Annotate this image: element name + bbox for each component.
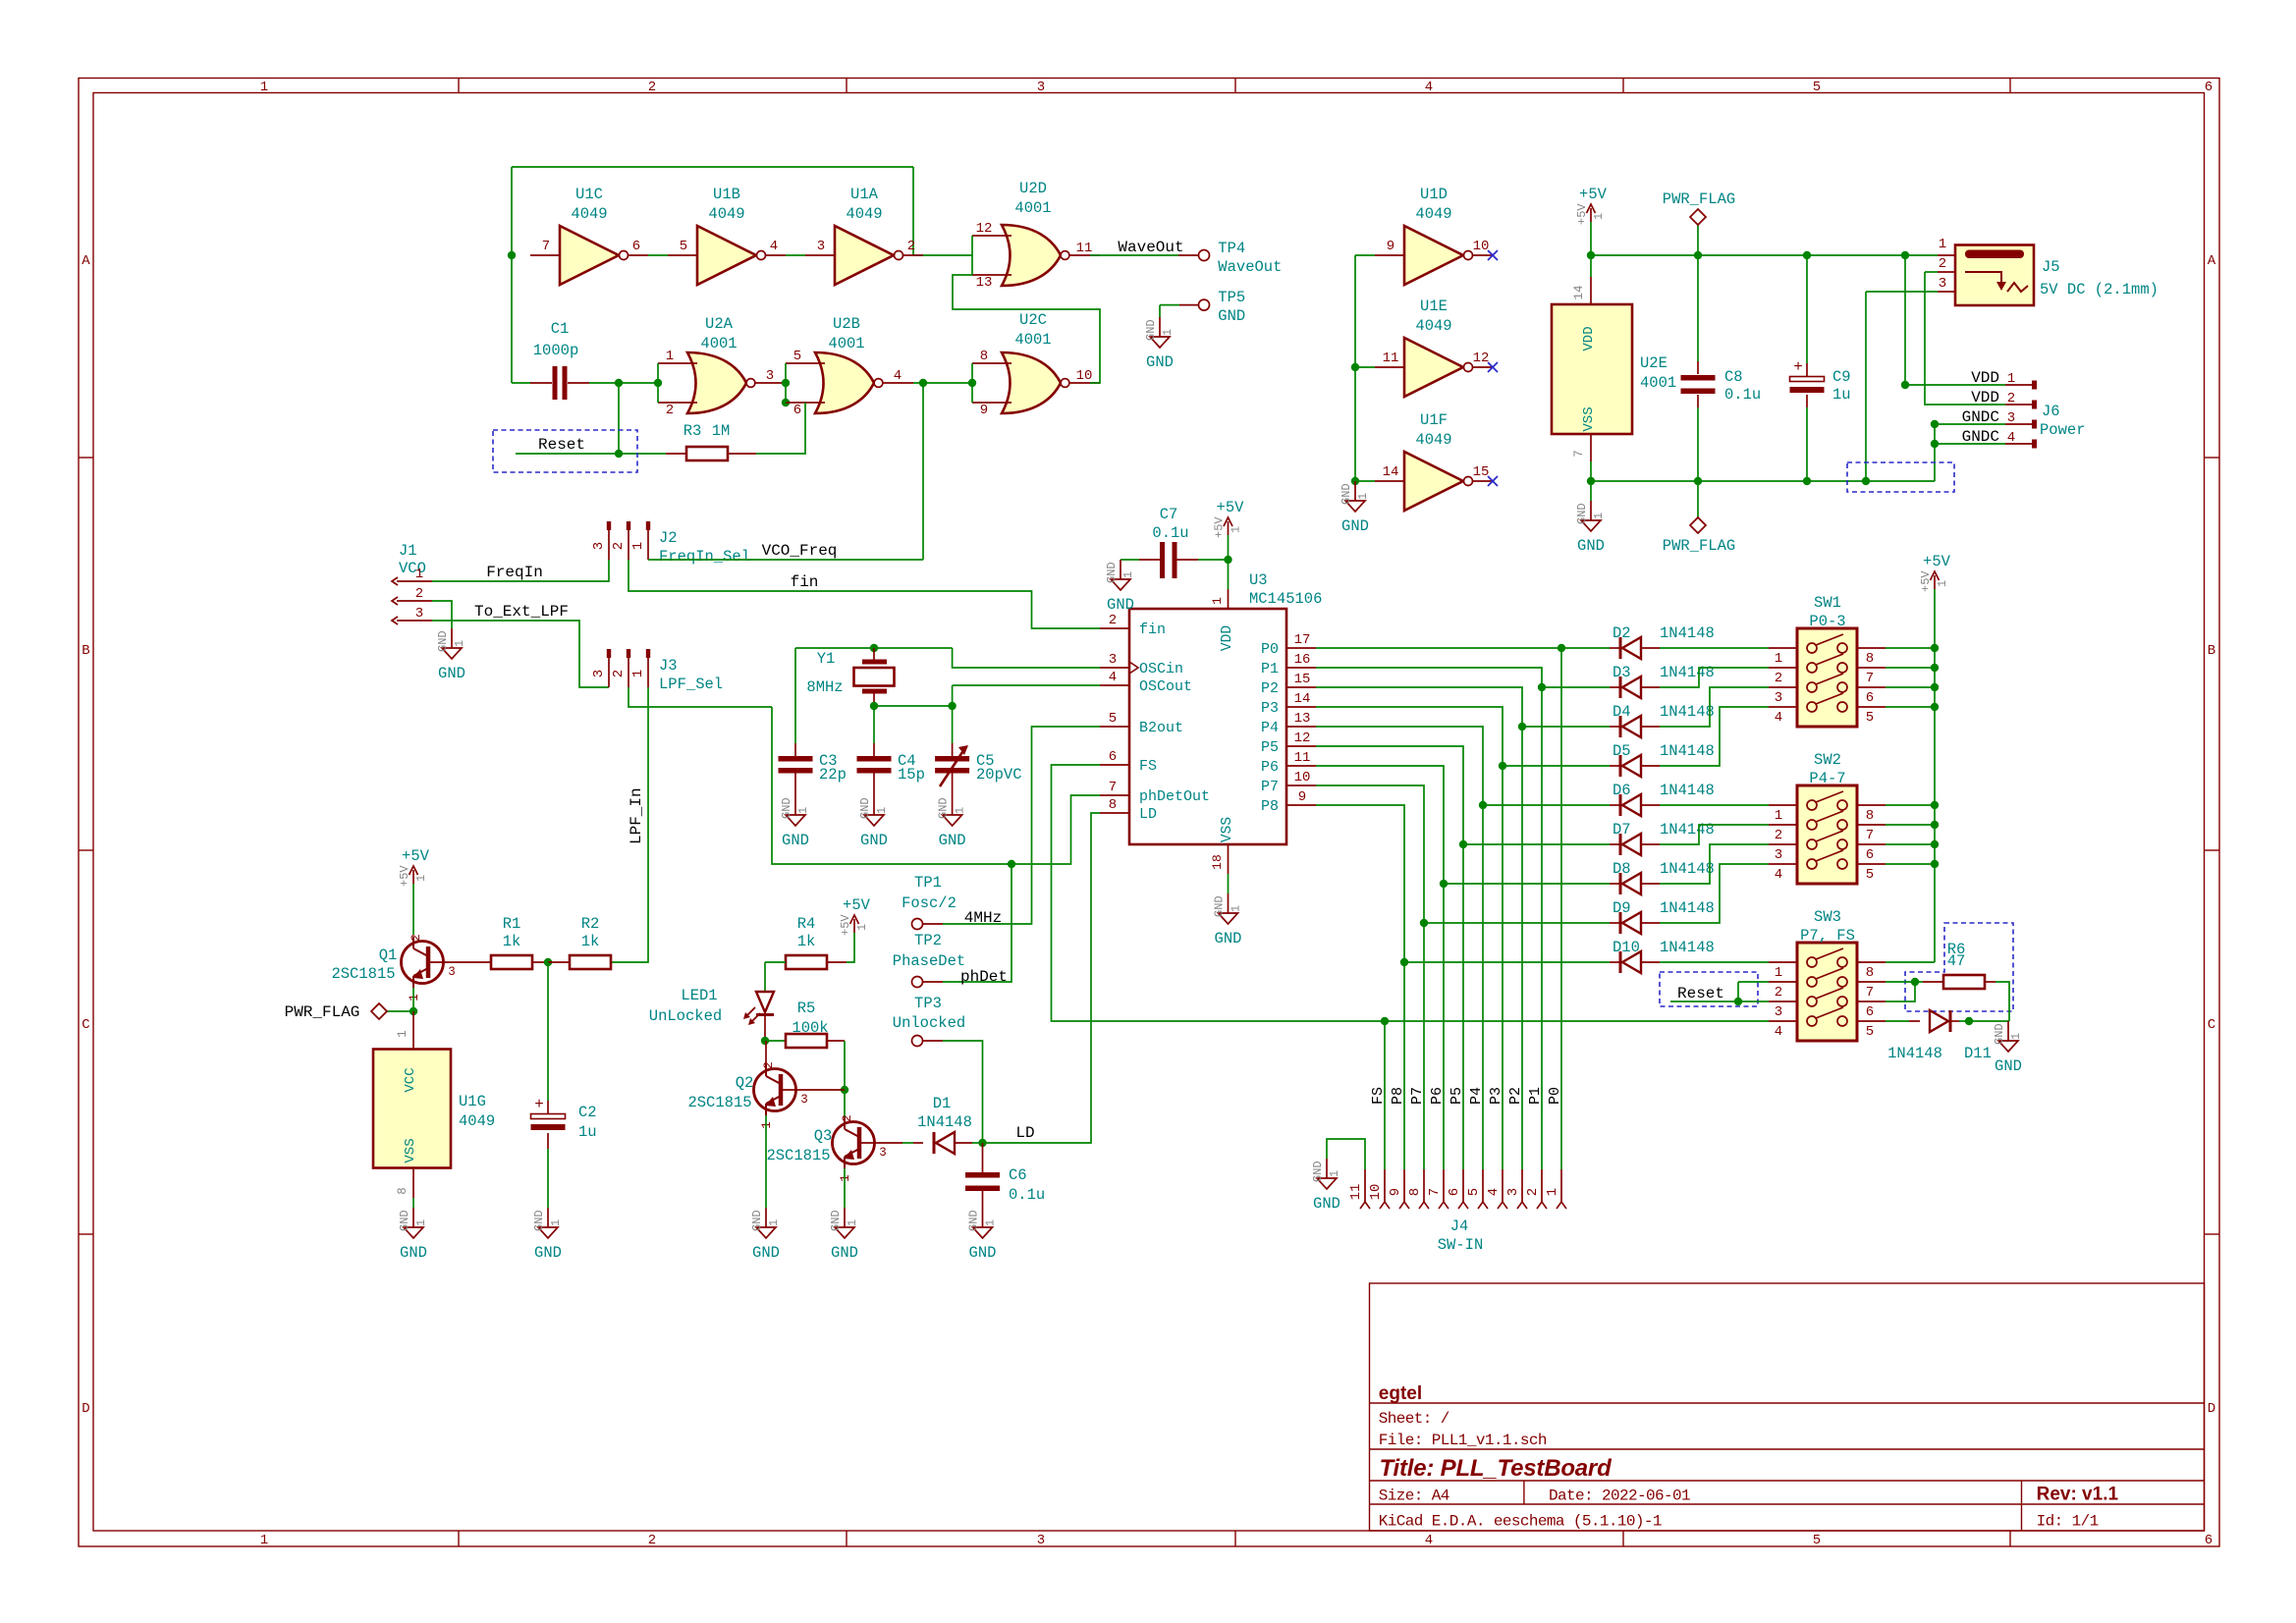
svg-text:D9: D9 (1613, 899, 1631, 917)
ground GND at C7 (1105, 560, 1135, 614)
svg-text:2SC1815: 2SC1815 (687, 1094, 751, 1111)
power unit U2E box (1552, 304, 1632, 434)
diode D3 body (1620, 676, 1641, 698)
svg-text:3: 3 (1505, 1188, 1521, 1196)
ground GND at C6 (967, 1208, 998, 1262)
node junction +5V rail (1931, 644, 1939, 652)
svg-text:GND: GND (937, 797, 951, 819)
resistor R3 (686, 447, 728, 460)
svg-text:1000p: 1000p (533, 342, 579, 359)
svg-text:SW2: SW2 (1814, 751, 1841, 769)
svg-text:1N4148: 1N4148 (1660, 664, 1715, 681)
svg-text:8: 8 (1109, 797, 1117, 813)
svg-text:U1D: U1D (1420, 186, 1448, 203)
svg-text:1N4148: 1N4148 (1660, 703, 1715, 721)
diode D10 body (1620, 951, 1641, 973)
svg-text:8: 8 (1866, 808, 1874, 824)
svg-text:1: 1 (2009, 1033, 2023, 1040)
svg-text:+5V: +5V (1919, 570, 1933, 592)
node junction U1E (1351, 363, 1359, 371)
node junction LD (978, 1139, 986, 1147)
Q2 emitter to GND (765, 1115, 767, 1208)
svg-text:1: 1 (760, 1121, 774, 1129)
wire phDetOut (772, 707, 1100, 864)
svg-text:GND: GND (1144, 319, 1158, 341)
svg-text:1: 1 (415, 567, 423, 582)
crystal Y1 8MHz (854, 648, 895, 706)
svg-text:1k: 1k (503, 933, 521, 950)
svg-text:C: C (82, 1017, 89, 1033)
svg-text:4: 4 (1775, 710, 1782, 726)
diode D5 body (1620, 755, 1641, 777)
node junction P4/diode (1479, 801, 1487, 809)
diode D6 body (1620, 794, 1641, 816)
svg-text:fin: fin (791, 573, 819, 591)
svg-text:GNDC: GNDC (1962, 428, 1999, 446)
wire U1B-U1A (786, 254, 805, 256)
svg-text:GND: GND (400, 1244, 427, 1262)
svg-text:R3: R3 (683, 422, 702, 440)
J5 pin 1 (1938, 254, 1955, 256)
wire VCO_Freq drop (922, 383, 924, 560)
svg-text:Q3: Q3 (814, 1127, 833, 1145)
svg-text:U1G: U1G (459, 1093, 486, 1110)
svg-text:Sheet: /: Sheet: / (1379, 1410, 1449, 1428)
wire OSCout (953, 684, 1100, 686)
wire net P8 (1316, 805, 1404, 1169)
svg-text:3: 3 (766, 368, 774, 384)
svg-text:GND: GND (532, 1210, 546, 1231)
svg-text:C: C (2208, 1017, 2215, 1033)
svg-text:5: 5 (1813, 1533, 1821, 1548)
node junction +5V rail (1931, 801, 1939, 809)
resistor R4 1k (786, 955, 827, 969)
Q3 emitter to GND (844, 1168, 846, 1208)
node junction Y1 top (870, 644, 878, 652)
svg-text:PWR_FLAG: PWR_FLAG (1663, 537, 1735, 555)
svg-text:Reset: Reset (1677, 985, 1724, 1002)
svg-text:9: 9 (1388, 1188, 1403, 1196)
svg-text:9: 9 (1387, 239, 1394, 254)
svg-text:GND: GND (969, 1244, 997, 1262)
svg-text:Y1: Y1 (817, 650, 836, 668)
svg-text:U2D: U2D (1019, 180, 1047, 197)
node junction U2C input (968, 379, 976, 387)
svg-text:11: 11 (1383, 351, 1399, 366)
svg-text:GND: GND (436, 630, 450, 652)
svg-text:TP2: TP2 (914, 932, 942, 949)
svg-text:1: 1 (796, 807, 810, 814)
svg-text:1N4148: 1N4148 (1660, 624, 1715, 642)
svg-text:2: 2 (611, 670, 627, 677)
U3 pin 1 VDD top (1228, 589, 1230, 609)
wire J1 pin2 to GND (432, 601, 452, 628)
wire to U1D input (1355, 254, 1375, 256)
resistor R3 1M with wires (618, 383, 620, 454)
svg-text:3: 3 (1775, 690, 1782, 706)
node junction PWR_FLAG (1694, 251, 1702, 259)
svg-text:SW1: SW1 (1814, 594, 1841, 612)
wire crystal bottom rail (874, 705, 953, 707)
capacitor C3 22p (779, 756, 813, 774)
wire left vertical (511, 167, 513, 383)
svg-text:4: 4 (1425, 80, 1433, 95)
ground GND at Q3 (829, 1208, 859, 1262)
node junction P6/diode (1440, 880, 1448, 888)
wire To_Ext_LPF (432, 621, 609, 687)
DIP switch SW2 P4-7 (1769, 751, 1886, 884)
diode D9 body (1620, 912, 1641, 934)
wire Reset net (516, 453, 619, 455)
svg-text:1: 1 (2007, 371, 2015, 387)
svg-text:phDet: phDet (960, 968, 1008, 986)
svg-text:LD: LD (1139, 806, 1157, 823)
J4 pin 9 (1403, 1169, 1405, 1202)
power flag PWR_FLAG at Q1 (371, 1003, 413, 1019)
svg-text:P7: P7 (1409, 1087, 1426, 1105)
svg-text:VCO_Freq: VCO_Freq (762, 542, 838, 560)
svg-text:GND: GND (1339, 483, 1353, 505)
diode D11 1N4148 (1930, 1010, 1950, 1032)
node junction P7/diode (1420, 919, 1428, 927)
svg-text:6: 6 (793, 403, 801, 418)
svg-text:D2: D2 (1613, 624, 1631, 642)
svg-text:D5: D5 (1613, 742, 1631, 760)
node junction Y1 bottom (870, 702, 878, 710)
resistor R6 47 (1943, 975, 1985, 989)
svg-text:VDD: VDD (1220, 625, 1235, 651)
svg-text:D: D (2208, 1401, 2215, 1417)
svg-text:2: 2 (1775, 671, 1782, 686)
svg-text:4001: 4001 (1014, 199, 1051, 217)
svg-text:3: 3 (2007, 410, 2015, 426)
svg-text:GND: GND (1107, 596, 1134, 614)
J5 pin 2 (1938, 271, 1955, 273)
svg-text:14: 14 (1294, 691, 1311, 707)
svg-text:SW3: SW3 (1814, 908, 1841, 926)
svg-text:14: 14 (1383, 464, 1399, 480)
svg-text:+5V: +5V (839, 914, 852, 936)
svg-text:FS: FS (1370, 1087, 1387, 1105)
svg-text:LPF_In: LPF_In (628, 787, 645, 844)
svg-text:4: 4 (770, 239, 778, 254)
ground GND at D11 (1993, 1021, 2023, 1075)
svg-text:47: 47 (1947, 952, 1966, 970)
svg-text:2: 2 (666, 403, 674, 418)
wire TP2 drop (943, 864, 1011, 982)
svg-text:P4: P4 (1468, 1087, 1485, 1105)
node junction at U1C input (508, 251, 516, 259)
wire net P1 (1316, 668, 1542, 1169)
dashed box around Reset at SW3 (1660, 972, 1758, 1006)
svg-text:GND: GND (1341, 517, 1369, 535)
svg-text:TP5: TP5 (1218, 289, 1245, 306)
ground GND at J1 (436, 628, 466, 682)
capacitor C8 (1681, 375, 1716, 394)
diode D1 1N4148 (913, 1142, 923, 1144)
svg-text:OSCout: OSCout (1139, 678, 1192, 695)
wire J5 pin3 to ground rail (1865, 292, 1867, 481)
svg-text:6: 6 (1866, 1004, 1874, 1020)
node junction P2/diode (1518, 723, 1526, 730)
svg-text:1: 1 (1775, 651, 1782, 667)
svg-text:P7, FS: P7, FS (1800, 927, 1855, 945)
capacitor C1 1000p (553, 366, 568, 400)
wire Reset to SW3 pin3 (1738, 982, 1769, 1001)
svg-text:9: 9 (1298, 789, 1306, 805)
diode D9 1N4148 (1424, 922, 1610, 924)
diode D4 body (1620, 716, 1641, 737)
node junction U2B pin6 / R3 (782, 399, 790, 406)
svg-text:GND: GND (1575, 503, 1589, 524)
node junction C5 (948, 702, 956, 710)
svg-text:1: 1 (1328, 1170, 1341, 1177)
svg-text:GND: GND (1213, 895, 1227, 917)
wire R4 to LED1 (765, 961, 786, 963)
svg-text:GNDC: GNDC (1962, 408, 1999, 426)
svg-text:1N4148: 1N4148 (1660, 860, 1715, 878)
svg-text:10: 10 (1294, 770, 1311, 785)
svg-text:1: 1 (630, 542, 646, 550)
svg-text:13: 13 (976, 275, 993, 291)
svg-text:1: 1 (1230, 905, 1243, 912)
node junction +5V rail (1931, 664, 1939, 672)
LED LED1 UnLocked (743, 992, 774, 1025)
wire U2B out to U2C (913, 382, 972, 384)
svg-text:1: 1 (1545, 1188, 1560, 1196)
svg-text:TP3: TP3 (914, 995, 942, 1012)
svg-text:3: 3 (1775, 1004, 1782, 1020)
svg-text:KiCad E.D.A. eeschema (5.1.10: KiCad E.D.A. eeschema (5.1.10)-1 (1379, 1513, 1662, 1531)
svg-text:6: 6 (1866, 690, 1874, 706)
svg-text:Fosc/2: Fosc/2 (902, 894, 957, 912)
J5 pin 3 (1938, 291, 1955, 293)
wire switch output to +5V rail (1886, 843, 1935, 845)
node junction FS (1381, 1017, 1389, 1025)
transistor Q1 2SC1815 (402, 934, 456, 1001)
svg-text:1: 1 (414, 1219, 428, 1226)
wire SW3 pin6 jog up (1886, 982, 1915, 1001)
svg-text:1N4148: 1N4148 (1887, 1045, 1942, 1062)
svg-text:6: 6 (1109, 749, 1117, 765)
wire +5V vertical switch rail (1934, 589, 1936, 962)
connector J6 Power (2005, 384, 2032, 386)
svg-text:D11: D11 (1964, 1045, 1992, 1062)
svg-text:1: 1 (396, 1030, 410, 1038)
svg-text:10: 10 (1076, 368, 1093, 384)
wire D7 dogleg to SW2 pin2 (1660, 825, 1769, 844)
wire B2out to TP1 (943, 727, 1100, 924)
svg-text:15: 15 (1473, 464, 1490, 480)
svg-text:2: 2 (415, 586, 423, 602)
Q2 base pin (783, 1089, 845, 1091)
svg-text:8: 8 (1866, 965, 1874, 981)
svg-text:4: 4 (1775, 867, 1782, 883)
svg-text:P2: P2 (1261, 680, 1279, 697)
svg-text:1: 1 (1121, 571, 1135, 578)
svg-text:7: 7 (542, 239, 550, 254)
power +5V at U3 (1213, 499, 1245, 538)
wire U1C-U1B (648, 254, 668, 256)
wire +5V to Q1 collector (412, 884, 414, 935)
J4 pin 4 (1502, 1169, 1503, 1202)
power unit U1G box (373, 1050, 451, 1168)
node junction +5V rail (1931, 703, 1939, 711)
node junction C7/+5V (1224, 556, 1231, 564)
svg-text:7: 7 (1866, 828, 1874, 843)
svg-text:6: 6 (1447, 1188, 1462, 1196)
svg-text:Id: 1/1: Id: 1/1 (2037, 1513, 2099, 1531)
svg-text:OSCin: OSCin (1139, 661, 1183, 677)
svg-text:U1E: U1E (1420, 298, 1448, 315)
svg-text:R4: R4 (797, 915, 816, 933)
wire to U1E input (1355, 366, 1375, 368)
inverter U1F (1375, 411, 1493, 511)
wire spare inverter rail (1354, 255, 1356, 481)
svg-text:7: 7 (1427, 1188, 1443, 1196)
ground GND at C3 (780, 795, 810, 849)
svg-text:+5V: +5V (843, 896, 871, 914)
svg-text:To_Ext_LPF: To_Ext_LPF (474, 603, 569, 621)
svg-text:1N4148: 1N4148 (1660, 899, 1715, 917)
svg-text:2: 2 (1775, 828, 1782, 843)
svg-text:11: 11 (1294, 750, 1311, 766)
NOR gate U2D (972, 180, 1100, 291)
wire R6 to FS row (1995, 982, 2009, 1021)
wire J4 pin11 to GND (1327, 1139, 1365, 1169)
wire Reset to SW3 pin2 (1738, 981, 1769, 983)
wire FS row to SW3 pin4 (1385, 1020, 1769, 1022)
capacitor C2 1u polarized (547, 962, 549, 1101)
wire R3 to U2B pin6 (756, 403, 805, 454)
wire switch output to +5V rail (1886, 686, 1935, 688)
svg-text:1: 1 (855, 924, 869, 931)
wire switch output to +5V rail (1886, 863, 1935, 865)
wire to U1F input (1355, 480, 1375, 482)
svg-text:5: 5 (793, 349, 801, 364)
wire D5 dogleg to SW1 pin4 (1660, 707, 1769, 766)
diode D6 1N4148 (1483, 804, 1610, 806)
svg-text:1N4148: 1N4148 (1660, 782, 1715, 799)
svg-text:17: 17 (1294, 632, 1311, 648)
svg-text:Date: 2022-06-01: Date: 2022-06-01 (1549, 1488, 1690, 1505)
NOR gate U2B (786, 315, 913, 418)
svg-text:12: 12 (1473, 351, 1490, 366)
svg-text:GND: GND (752, 1244, 780, 1262)
svg-text:MC145106: MC145106 (1249, 590, 1322, 608)
svg-text:GND: GND (1313, 1195, 1340, 1213)
svg-text:GND: GND (1311, 1161, 1325, 1182)
svg-text:SW-IN: SW-IN (1438, 1236, 1484, 1254)
node junction P0/D2 (1558, 644, 1565, 652)
J4 pin 3 (1521, 1169, 1523, 1202)
wire D3 dogleg to SW1 pin2 (1660, 668, 1769, 687)
svg-text:P7: P7 (1261, 779, 1279, 795)
svg-text:+5V: +5V (1217, 499, 1245, 516)
DIP switch SW3 P7,FS (1769, 908, 1886, 1041)
svg-text:6: 6 (2205, 1533, 2213, 1548)
svg-text:TP4: TP4 (1218, 240, 1245, 257)
wire net P7 (1316, 785, 1424, 1169)
node junction U1F/GND (1351, 477, 1359, 485)
svg-text:GND: GND (1215, 930, 1242, 947)
capacitor C9 (1790, 358, 1825, 393)
ground GND at U3 (1213, 893, 1243, 947)
wire U1A output to top (912, 167, 914, 255)
test point TP2 (912, 977, 923, 988)
svg-text:3: 3 (1037, 80, 1045, 95)
wire GNDC to J6 (1935, 423, 2005, 425)
svg-text:GND: GND (1105, 562, 1119, 583)
svg-text:3: 3 (415, 606, 423, 622)
svg-text:PWR_FLAG: PWR_FLAG (285, 1003, 360, 1021)
svg-text:fin: fin (1139, 622, 1166, 638)
svg-text:15p: 15p (898, 766, 925, 784)
capacitor C2 (531, 1096, 566, 1130)
test point TP1 (912, 919, 923, 930)
svg-text:FS: FS (1139, 758, 1157, 775)
svg-text:VDD: VDD (1971, 389, 1999, 406)
svg-text:B: B (2208, 643, 2215, 659)
svg-text:GND: GND (939, 832, 966, 849)
J4 pin 8 (1423, 1169, 1425, 1202)
wire U2C out to U2D input (953, 275, 1100, 383)
svg-text:5: 5 (1866, 710, 1874, 726)
svg-text:GND: GND (967, 1210, 981, 1231)
wire SW3 pin8 to rail (1886, 961, 1935, 963)
node junction +5V rail (1931, 840, 1939, 848)
svg-text:4049: 4049 (571, 205, 607, 223)
node junction U2A input (654, 379, 662, 387)
svg-text:4: 4 (1109, 670, 1117, 685)
wire J3 pin1 LPF_In down (611, 687, 648, 962)
svg-text:1: 1 (414, 875, 428, 882)
svg-text:VSS: VSS (1220, 817, 1235, 842)
svg-text:0.1u: 0.1u (1152, 524, 1188, 542)
svg-text:U1C: U1C (575, 186, 603, 203)
svg-text:1: 1 (1939, 237, 1946, 252)
power flag PWR_FLAG top (1663, 190, 1735, 255)
wire D4 dogleg to SW1 pin3 (1660, 687, 1769, 727)
node junction +5V rail (1931, 821, 1939, 829)
svg-text:1: 1 (1592, 513, 1606, 519)
wire +5V rail top (1591, 254, 1938, 256)
svg-text:VDD: VDD (1971, 369, 1999, 387)
transistor Q2 (754, 1061, 808, 1129)
svg-text:8: 8 (1866, 651, 1874, 667)
svg-text:8: 8 (1407, 1188, 1423, 1196)
svg-text:2: 2 (648, 1533, 656, 1548)
Q1 emitter to PWR_FLAG node (412, 988, 414, 1011)
capacitor C6 0.1u (982, 1143, 984, 1172)
svg-text:5: 5 (1109, 711, 1117, 727)
svg-text:FreqIn: FreqIn (486, 564, 543, 581)
ground GND power section (1575, 501, 1606, 555)
svg-text:1k: 1k (797, 933, 816, 950)
svg-text:3: 3 (1939, 276, 1946, 292)
inverter U1B (668, 186, 786, 285)
Q3 base pin to D1 (861, 1142, 902, 1144)
diode D7 body (1620, 834, 1641, 855)
node junction +5V rail (1931, 683, 1939, 691)
inverter U1D (1375, 186, 1493, 285)
wire crystal top rail (795, 647, 953, 649)
svg-text:10: 10 (1473, 239, 1490, 254)
svg-text:VDD: VDD (1581, 326, 1597, 351)
svg-text:U2E: U2E (1640, 354, 1667, 372)
svg-text:File: PLL1_v1.1.sch: File: PLL1_v1.1.sch (1379, 1432, 1547, 1449)
svg-text:1: 1 (1230, 526, 1243, 533)
